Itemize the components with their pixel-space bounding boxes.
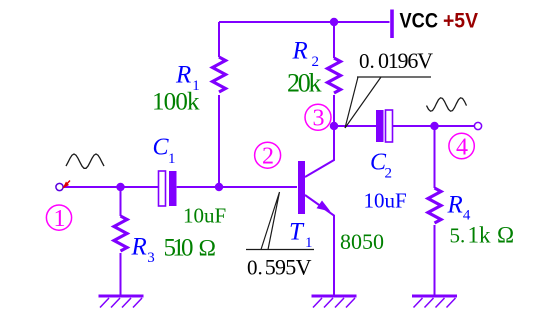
svg-text:C: C (153, 135, 170, 161)
svg-text:10uF: 10uF (364, 189, 407, 213)
svg-text:1: 1 (54, 206, 66, 232)
svg-text:+5V: +5V (443, 10, 478, 33)
svg-text:VCC: VCC (400, 10, 439, 33)
svg-text:100k: 100k (152, 89, 200, 116)
svg-text:10uF: 10uF (183, 204, 226, 228)
svg-text:8050: 8050 (340, 229, 384, 254)
svg-text:4: 4 (456, 135, 468, 161)
svg-text:2: 2 (385, 166, 393, 182)
svg-text:Ω: Ω (199, 235, 216, 261)
svg-text:R: R (175, 61, 191, 88)
svg-text:5.: 5. (450, 224, 466, 248)
svg-text:595V: 595V (265, 255, 312, 280)
svg-text:R: R (292, 37, 308, 64)
svg-text:510: 510 (164, 234, 194, 261)
svg-text:0196V: 0196V (378, 48, 433, 73)
svg-text:R: R (131, 234, 147, 261)
svg-text:Ω: Ω (497, 223, 514, 248)
svg-text:2: 2 (262, 144, 274, 170)
svg-text:1: 1 (168, 151, 176, 167)
svg-text:3: 3 (147, 250, 155, 266)
svg-text:3: 3 (313, 106, 325, 132)
svg-text:1k: 1k (468, 223, 492, 248)
svg-text:4: 4 (463, 208, 471, 224)
svg-text:20k: 20k (287, 68, 322, 97)
svg-text:0.: 0. (359, 49, 375, 73)
svg-text:1: 1 (305, 235, 313, 251)
svg-text:R: R (447, 191, 463, 218)
svg-text:T: T (289, 219, 305, 246)
svg-text:0.: 0. (247, 256, 263, 280)
